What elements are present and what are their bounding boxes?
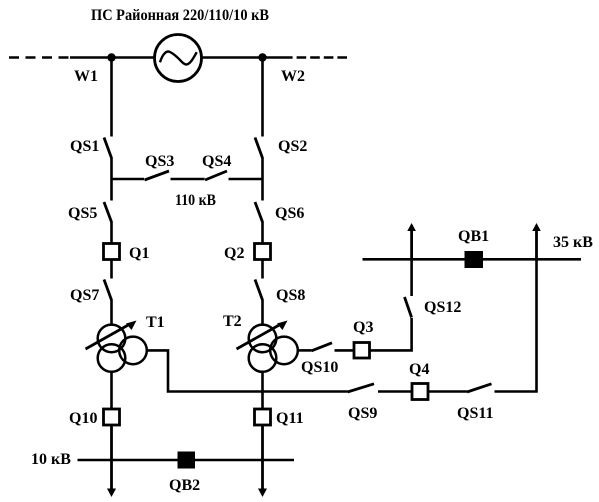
svg-text:35 кВ: 35 кВ [553,234,593,251]
wire: right feeder QS2 to QS6 (through 110kV tie node) [261,158,264,201]
svg-text:QS6: QS6 [275,205,304,222]
svg-text:Q11: Q11 [276,410,304,427]
wire: left feeder Q1 to QS7 [110,260,113,279]
wire: Q3 to QS12 branch corner [370,318,412,350]
wire: T1 tertiary elbow to lower 35kV link [147,350,348,391]
arrow: right outgoing feeder (down) [258,489,267,498]
disconnector QS4 [205,171,227,180]
svg-text:10 кВ: 10 кВ [31,451,71,468]
transformer T2 (three-winding, with regulation arrow) [237,321,298,372]
wire: left feeder QS5 to Q1 [110,222,113,245]
wire: QS10 to Q3 [335,349,355,352]
wire: lower 35kV link QS11 up to 35kV bus [495,259,537,391]
svg-text:QS9: QS9 [348,405,377,422]
disconnector QS12 [405,297,412,318]
svg-text:ПС Районная 220/110/10 кВ: ПС Районная 220/110/10 кВ [91,7,269,24]
disconnector QS2 [255,138,263,159]
svg-text:QS7: QS7 [70,287,99,304]
wire: right feeder T2 to Q11 [261,372,264,410]
wire: right feeder Q11 to 10kV bus and outgoing arrow [261,425,264,490]
transformer T1 (three-winding, with regulation arrow) [86,321,147,372]
wire: right feeder QS8 to T2 [261,300,264,327]
breaker Q2 [255,244,271,260]
breaker Q11 [255,409,271,425]
disconnector QS5 [104,202,112,222]
wire: 110 kV tie, left of QS3 [112,178,145,181]
bus coupler QB1 (filled square) [465,251,484,268]
svg-text:QS12: QS12 [424,299,461,316]
arrow: left outgoing feeder (down) [107,489,116,498]
breaker Q10 [104,409,120,425]
svg-text:QS4: QS4 [202,153,231,170]
svg-text:QS3: QS3 [145,153,174,170]
disconnector QS3 [145,171,170,180]
wire: lower 35kV link QS9 to Q4 [378,390,413,393]
wire: right feeder Q2 to QS8 [261,260,264,279]
breaker Q1 [104,244,120,260]
svg-text:W1: W1 [74,68,98,85]
bus coupler QB2 (filled square) [178,452,196,469]
disconnector QS11 [467,384,492,392]
wire: QS12 up to 35kV bus [410,259,413,296]
svg-text:Q3: Q3 [353,319,373,336]
svg-text:Q10: Q10 [69,410,97,427]
wire: 110 kV tie, right of QS4 [229,178,263,181]
wire: 110 kV tie, between QS3 and QS4 [171,178,205,181]
wire: left feeder T1 to Q10 [110,372,113,410]
node: W1 junction dot [107,53,115,61]
svg-text:QS2: QS2 [278,138,307,155]
wire: left feeder QS7 to T1 [110,300,113,327]
wire: left feeder QS1 to QS5 (through 110kV tie node) [110,158,113,201]
svg-text:QB2: QB2 [169,477,200,494]
svg-text:Q4: Q4 [409,361,429,378]
svg-text:Q2: Q2 [224,245,244,262]
wire: T2 tertiary to QS10 [298,349,312,352]
disconnector QS8 [255,280,263,301]
wire: 220 kV line, left solid segment [70,56,154,59]
svg-text:QS1: QS1 [70,138,99,155]
arrow: 35kV bus outgoing feeder right (up) [532,223,541,259]
arrow: 35kV bus outgoing feeder left (up) [407,223,416,259]
svg-text:QB1: QB1 [458,228,489,245]
node: W2 junction dot [258,53,266,61]
disconnector QS9 [348,384,375,392]
bus: 35 kV busbar [363,258,582,261]
svg-text:W2: W2 [281,68,305,85]
svg-text:110 кВ: 110 кВ [175,192,216,209]
wire: right feeder from W2 to QS2 [261,58,264,137]
wire: 220 kV line, left dashed segment [9,56,71,59]
svg-text:Q1: Q1 [129,245,149,262]
wire: left feeder Q10 to 10kV bus and outgoing arrow [110,425,113,490]
disconnector QS7 [104,280,112,301]
disconnector QS10 [312,343,333,351]
svg-text:QS11: QS11 [457,405,493,422]
wire: 220 kV line, right solid segment [202,56,283,59]
svg-text:QS8: QS8 [276,287,305,304]
wire: left feeder from W1 to QS1 [110,58,113,137]
svg-text:T1: T1 [146,314,165,331]
breaker Q3 [354,343,370,359]
svg-text:QS5: QS5 [68,205,97,222]
wire: right feeder QS6 to Q2 [261,222,264,245]
svg-text:QS10: QS10 [301,359,338,376]
breaker Q4 [412,384,428,400]
generator G (system source) [155,35,202,82]
wire: 220 kV line, right dashed segment [283,56,347,59]
bus: 10 kV busbar [78,459,295,462]
disconnector QS1 [104,138,112,159]
disconnector QS6 [255,202,263,222]
svg-text:T2: T2 [223,313,242,330]
wire: lower 35kV link Q4 to QS11 [428,390,467,393]
